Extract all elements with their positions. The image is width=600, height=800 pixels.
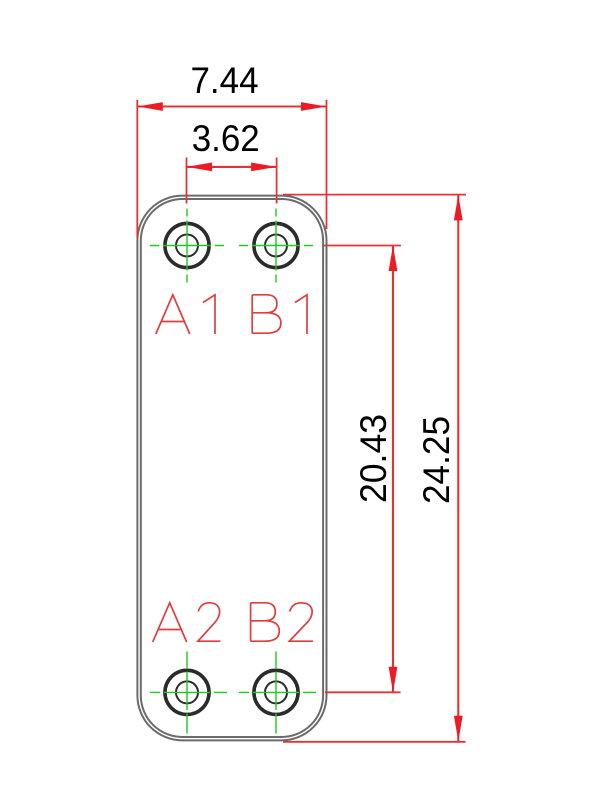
extension line right: [326, 100, 328, 229]
centerline port B1: [239, 209, 313, 283]
port B2: [254, 670, 298, 714]
arrowheads 3.62: [187, 163, 277, 172]
centerline port B2: [239, 652, 316, 734]
extension line bottom: [283, 741, 466, 743]
svg-text:3.62: 3.62: [192, 118, 260, 159]
arrowheads 24.25: [454, 195, 463, 741]
dimension line: [137, 105, 326, 107]
arrowheads 20.43: [389, 246, 398, 693]
arrowheads 7.44: [137, 102, 326, 111]
centerline port A2: [150, 652, 227, 734]
dimension 24.25: [283, 195, 466, 742]
extension line top: [324, 245, 401, 247]
extension line right: [276, 158, 278, 204]
port B1: [254, 223, 298, 267]
dimension 7.44: [137, 100, 326, 238]
label A2: [153, 603, 221, 642]
label B2: [251, 603, 313, 641]
dimension line: [392, 246, 394, 693]
extension line bottom: [325, 691, 401, 693]
centerline port A1: [150, 209, 224, 283]
dimension 20.43: [324, 246, 401, 693]
port A2: [165, 670, 209, 714]
plate outline inner: [141, 199, 323, 737]
dimension line: [187, 166, 277, 168]
port A1: [165, 223, 209, 267]
svg-text:7.44: 7.44: [191, 60, 259, 101]
plate outline outer: [137, 196, 326, 741]
extension line top: [283, 194, 466, 196]
extension line left: [186, 158, 188, 204]
dimension line: [457, 195, 459, 741]
dimension 3.62: [187, 158, 277, 204]
svg-text:20.43: 20.43: [353, 414, 394, 503]
extension line left: [136, 100, 138, 238]
label A1: [156, 295, 215, 334]
label B1: [252, 295, 307, 334]
svg-text:24.25: 24.25: [416, 416, 457, 504]
